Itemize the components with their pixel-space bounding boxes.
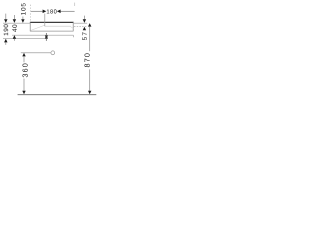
product right edge	[72, 22, 74, 31]
product bottom edge	[30, 30, 74, 32]
dim 870 line upper	[89, 27, 91, 52]
dim 190 stub below	[5, 42, 7, 45]
dim 40 stub below	[13, 39, 15, 41]
dim 180 dashed extension left	[30, 5, 32, 21]
dashed line y26.6 right	[74, 26, 87, 28]
dim 180 line left part	[31, 10, 43, 12]
product top edge	[30, 21, 74, 23]
dim 190 top arrow	[4, 19, 7, 23]
dim 360 bottom arrow	[22, 91, 25, 95]
dim 105 stub above	[22, 17, 24, 20]
dim 190 stub above	[5, 14, 7, 20]
dim 360 line upper	[23, 56, 25, 62]
small gap dimension arrows x46	[45, 33, 47, 35]
extension line top-left y23	[3, 22, 30, 24]
hook at right end of y35 line	[72, 35, 74, 37]
dim 870 label	[85, 64, 90, 67]
extension line y38.7	[3, 38, 48, 40]
dim 105 label	[21, 12, 25, 15]
dim 180 arrow left-pointing	[57, 10, 61, 14]
inner diagonal left	[31, 25, 45, 30]
dim 105 top arrow	[21, 19, 24, 23]
dim 40 bottom arrow	[13, 35, 16, 39]
extension line top-right y23	[74, 22, 87, 24]
dim 57 top arrow	[83, 19, 86, 23]
inner shelf line	[45, 25, 71, 27]
dim 57 bottom arrow	[83, 27, 86, 31]
inner diagonal right	[70, 26, 73, 28]
dim 180 arrow right-pointing	[43, 10, 47, 14]
dim 40 stub above	[13, 15, 15, 19]
floor line	[18, 94, 97, 96]
product left edge	[29, 22, 31, 31]
dim 180 label	[47, 9, 49, 13]
dim 870 line lower	[89, 69, 91, 91]
dim 870 bottom arrow	[88, 91, 91, 94]
dim 105 bottom arrow at hole line	[22, 53, 25, 57]
extension line y35	[12, 34, 73, 36]
dim 40 label	[12, 29, 16, 32]
dim 190 label	[4, 33, 8, 36]
mount hole centerline	[44, 14, 46, 27]
dim 180 line right part	[61, 10, 75, 12]
dim 190 bottom arrow	[4, 39, 7, 43]
dim 57 label	[82, 37, 86, 40]
dim 360 label	[23, 74, 28, 77]
dim 40 top arrow	[13, 19, 16, 23]
dim 180 extension right stub	[74, 3, 76, 6]
dim 870 top arrow	[88, 23, 91, 27]
dim 360 line lower	[23, 79, 25, 91]
mounting hole circle	[51, 51, 55, 55]
dim 57 stub above	[83, 16, 85, 20]
mounting hole line	[21, 52, 51, 54]
